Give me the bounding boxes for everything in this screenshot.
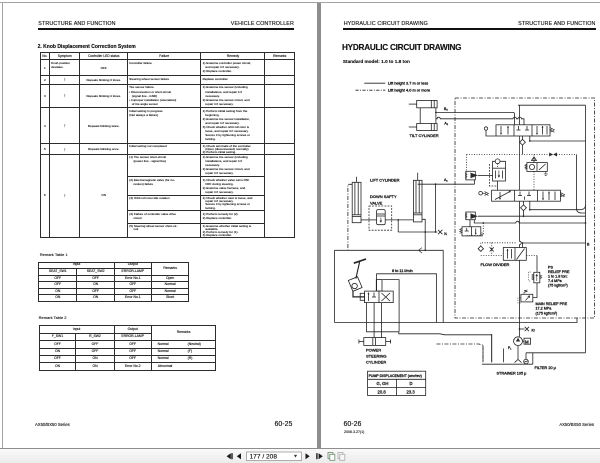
lift valve bottom port to right bbox=[529, 201, 586, 210]
lift cylinder right rod bbox=[417, 173, 419, 181]
steering valve top cartridge bbox=[376, 280, 382, 292]
valve block solid outline top bbox=[518, 104, 586, 106]
svg-text:A₂: A₂ bbox=[444, 121, 448, 125]
KL gallery line bbox=[398, 231, 437, 233]
supply loop top horizontal bbox=[335, 248, 444, 323]
REMARK TABLE 2 bbox=[39, 315, 67, 320]
tilt spool valve arrows left cell bbox=[500, 126, 509, 135]
lift spool right cell arrows bbox=[542, 191, 555, 200]
check diamond below lift valve bbox=[521, 201, 527, 217]
lift spool valve body bbox=[492, 190, 561, 201]
svg-text:D: D bbox=[410, 381, 413, 386]
flow divider right port up line bbox=[522, 242, 586, 247]
svg-text:P₁: P₁ bbox=[508, 346, 512, 350]
svg-text:Kr: Kr bbox=[532, 328, 536, 332]
solenoid pilot dotted lines bbox=[467, 223, 484, 236]
nav next button bbox=[306, 453, 310, 459]
pilot check valve upper bbox=[465, 171, 492, 180]
svg-text:LIFT CYLINDER: LIFT CYLINDER bbox=[370, 178, 400, 183]
pump circle bbox=[514, 337, 523, 346]
svg-text:FILTER 20 μ: FILTER 20 μ bbox=[535, 366, 556, 370]
merge curve into block edge bbox=[576, 208, 585, 213]
tilt spool valve arrows right cell bbox=[536, 126, 547, 135]
wire A2 line to valve (with crossover hops) bbox=[436, 117, 524, 125]
svg-text:1 to 1.8 ton:: 1 to 1.8 ton: bbox=[548, 275, 567, 279]
nav prev-page button bbox=[227, 453, 233, 459]
LEFT PAGE bbox=[38, 21, 115, 27]
junction dot B2 at yoke bbox=[435, 112, 437, 114]
down safety valve dashed box bbox=[369, 206, 392, 230]
tilt cylinder bottom barrel bbox=[409, 124, 437, 131]
flow regulator dashed enclosure bbox=[490, 164, 498, 186]
legend dash-dot line bbox=[356, 89, 386, 91]
pilot diamond symbol bbox=[478, 243, 483, 252]
svg-text:B: B bbox=[587, 243, 590, 247]
svg-text:(75 kgf/cm²): (75 kgf/cm²) bbox=[548, 284, 568, 288]
Kr plug branch bbox=[519, 327, 529, 331]
svg-text:FLOW DIVIDER: FLOW DIVIDER bbox=[481, 262, 510, 267]
page copy icon 2 bbox=[338, 453, 345, 461]
lift spool valve pilot circle bbox=[479, 191, 484, 195]
svg-text:8 to 11 ℓ/min: 8 to 11 ℓ/min bbox=[392, 269, 413, 273]
tilt spool valve spring bbox=[550, 128, 554, 133]
lift cylinder left barrel bbox=[352, 182, 361, 222]
wire valve to right cylinder bbox=[385, 219, 413, 221]
tank walls bbox=[482, 334, 533, 364]
svg-text:MAIN RELIEF PRE: MAIN RELIEF PRE bbox=[536, 302, 568, 306]
steering valve body bbox=[360, 291, 393, 303]
main pressure line upper vertical bbox=[519, 105, 521, 125]
pilot dotted line lower left bbox=[481, 255, 504, 257]
main relief valve spring top bbox=[524, 290, 528, 294]
legend solid line bbox=[364, 82, 385, 84]
MAIN TABLE bbox=[40, 52, 295, 238]
aux solenoid spring left bbox=[525, 164, 527, 169]
aux solenoid valve flow arrows bbox=[532, 157, 537, 163]
label PS RELIEF PRE bbox=[548, 266, 570, 288]
steering orbitrol body bbox=[348, 277, 362, 292]
steering valve right cell X bbox=[382, 293, 391, 301]
nav prev button bbox=[237, 453, 241, 459]
supply loop left vertical bbox=[334, 250, 336, 322]
svg-text:Kₗ: Kₗ bbox=[444, 232, 447, 236]
return bottom line bbox=[335, 318, 578, 323]
svg-text:(175 kgf/cm²): (175 kgf/cm²) bbox=[536, 311, 558, 315]
tilt spool valve body bbox=[496, 125, 550, 136]
dash-dot alternate return line bbox=[437, 344, 484, 362]
svg-text:PS: PS bbox=[548, 266, 553, 270]
LEFT FOOTER bbox=[35, 422, 70, 427]
flow divider pilot dotted right to PS relief bbox=[526, 255, 537, 257]
wire B2 line to valve bbox=[436, 112, 515, 124]
pilot dotted line upper bbox=[467, 153, 577, 155]
aux valve tank stub bbox=[544, 171, 548, 175]
svg-text:B₂: B₂ bbox=[444, 107, 448, 111]
motor box M bbox=[522, 338, 530, 344]
pump displacement table text bbox=[369, 374, 422, 395]
flow divider valve body bbox=[503, 248, 526, 261]
filter symbol bbox=[524, 353, 529, 364]
PS relief feed line bbox=[536, 256, 538, 273]
RIGHT FOOTER bbox=[344, 421, 362, 428]
orbitrol outlet bbox=[353, 292, 365, 297]
tilt valve bottom port line to block edge bbox=[529, 136, 586, 142]
filter return line bbox=[526, 352, 586, 354]
svg-text:23.3: 23.3 bbox=[407, 389, 416, 394]
op tilt spool valve pilot circle bbox=[484, 127, 496, 136]
line from pilot junction down right bbox=[575, 154, 577, 208]
svg-text:POWER: POWER bbox=[366, 348, 381, 353]
svg-text:VALVE: VALVE bbox=[370, 201, 383, 206]
power steering cylinder bbox=[359, 338, 391, 346]
svg-text:G, GH: G, GH bbox=[377, 381, 389, 386]
lift cylinder right barrel bbox=[413, 180, 422, 222]
steering valve left cell arrows bbox=[368, 292, 377, 301]
lift spool valve left spring bbox=[485, 192, 489, 196]
steering return line to tank bbox=[399, 332, 492, 363]
pump suction line with strainer chevron bbox=[515, 346, 522, 363]
steering enclosure box bbox=[377, 274, 437, 323]
lift cylinder A1 port line bbox=[418, 180, 475, 185]
flow divider left cell arrows bbox=[507, 249, 512, 259]
label DOWN SAFTY VALVE bbox=[370, 194, 397, 206]
svg-text:177 / 208: 177 / 208 bbox=[250, 454, 278, 461]
check valve outlet line bbox=[478, 215, 586, 217]
REMARK TABLE 1 bbox=[40, 252, 68, 257]
main relief valve bbox=[518, 294, 533, 303]
flow regulator compensator circle bbox=[493, 159, 506, 168]
steering inner top edge bbox=[383, 280, 400, 332]
flow divider right cell restrictor diagonal bbox=[517, 249, 525, 260]
svg-text:PUMP DISPLACEMENT (cm³/rev): PUMP DISPLACEMENT (cm³/rev) bbox=[369, 374, 422, 378]
page number input bbox=[247, 452, 302, 461]
pilot check valve lower bbox=[465, 212, 478, 220]
A1 drop line bbox=[435, 184, 437, 232]
main vertical from flow divider to pump bbox=[519, 260, 521, 336]
lift spool center cell T ports bbox=[518, 192, 531, 200]
KL line down to supply loop bbox=[424, 232, 426, 250]
tilt spool valve center cell T ports bbox=[517, 126, 530, 130]
wire left cylinder to valve bbox=[361, 219, 377, 221]
tilt cylinder yoke frame bbox=[420, 108, 436, 124]
main vertical continues through hop over port line bbox=[520, 201, 522, 247]
flow regulator body bbox=[493, 168, 506, 181]
svg-text:RELIEF PRE: RELIEF PRE bbox=[548, 270, 570, 274]
svg-text:DOWN SAFTY: DOWN SAFTY bbox=[370, 194, 397, 199]
main pressure line mid vertical bbox=[519, 136, 521, 190]
flow divider pilot dotted upper bbox=[482, 242, 517, 244]
PS relief valve bbox=[529, 272, 540, 283]
lift cylinder left rod bbox=[356, 177, 358, 183]
shutoff valve bowtie on pilot line bbox=[549, 153, 557, 157]
tilt cylinder top barrel bbox=[409, 100, 437, 107]
pilot branch vertical to lock valve bbox=[466, 154, 468, 171]
lift spool left cell diagonal bbox=[495, 191, 511, 200]
svg-text:Lift height 4.0 m or more: Lift height 4.0 m or more bbox=[388, 88, 430, 93]
aux solenoid valve bbox=[527, 163, 547, 172]
pump displacement table bbox=[368, 371, 426, 395]
svg-text:7.4 MPa: 7.4 MPa bbox=[548, 279, 563, 283]
svg-text:20.8: 20.8 bbox=[378, 389, 387, 394]
right cylinder bottom outlet bbox=[422, 219, 425, 232]
valve block solid outline right edge bbox=[585, 105, 587, 353]
svg-text:STRAINER 105 μ: STRAINER 105 μ bbox=[497, 372, 527, 376]
pilot closed X symbol bbox=[490, 243, 494, 256]
svg-text:STEERING: STEERING bbox=[366, 354, 386, 359]
PS relief outlet down bbox=[533, 283, 537, 298]
flow regulator outlet to lift valve bbox=[497, 181, 499, 190]
steering valve return loop bbox=[367, 303, 399, 332]
nav next-page button bbox=[316, 453, 323, 459]
PS relief spring right bbox=[540, 275, 542, 279]
svg-text:M: M bbox=[525, 339, 529, 344]
tank gallery line bbox=[474, 220, 586, 224]
svg-text:17.2 MPa: 17.2 MPa bbox=[536, 307, 553, 311]
svg-text:Lift height 3.7 m or less: Lift height 3.7 m or less bbox=[388, 81, 428, 86]
down safety valve cartridge bbox=[377, 210, 386, 225]
RIGHT PAGE HEADER bbox=[344, 21, 428, 27]
label MAIN RELIEF PRE bbox=[536, 302, 568, 315]
branch down from safety line bbox=[397, 220, 399, 232]
link check valve to solenoid bbox=[469, 220, 471, 227]
svg-text:A₁: A₁ bbox=[444, 178, 448, 182]
lift spool valve right spring bbox=[560, 193, 564, 197]
tilt lock solenoid valve bbox=[460, 227, 484, 236]
steering handle bbox=[354, 259, 366, 279]
KL plug symbol bbox=[438, 230, 442, 234]
label POWER STEERING CYLINDER bbox=[366, 348, 386, 365]
check diamond below tilt valve bbox=[520, 136, 526, 154]
svg-text:CYLINDER: CYLINDER bbox=[366, 360, 386, 365]
aux valve pilot dotted to lift valve bbox=[533, 154, 535, 190]
hydraulic variant dash-dot boundary box bbox=[455, 98, 595, 318]
dash-dot lift feed left vertical bbox=[348, 184, 352, 250]
page copy icon 1 bbox=[328, 453, 335, 461]
steering valve down lines to cylinder bbox=[374, 303, 382, 338]
svg-text:TILT CYLINDER: TILT CYLINDER bbox=[410, 133, 439, 138]
TOOLBAR bbox=[0, 448, 600, 463]
